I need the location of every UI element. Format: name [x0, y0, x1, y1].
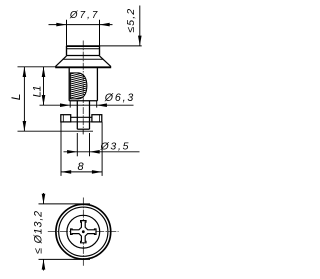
bottom view horizontal centerline	[48, 231, 119, 233]
L/L1 top reference line	[18, 66, 56, 68]
L arrow up	[23, 67, 27, 77]
bottom view outer circle	[56, 204, 111, 259]
extension line right (head right edge extended)	[99, 20, 101, 46]
L1 arrow down	[42, 95, 46, 105]
head top reference line extension (for 5,2 dim)	[100, 45, 142, 47]
arrow right-pointing at stem left	[67, 150, 77, 154]
pin left cap chamfer line	[62, 115, 64, 122]
dimension L vertical line	[23, 67, 25, 131]
body right edge	[96, 68, 98, 101]
flange collar line	[63, 58, 104, 60]
L arrow down	[23, 121, 27, 131]
svg-text:L: L	[9, 94, 23, 101]
centerline of side view	[82, 41, 84, 135]
extension of body left edge below	[69, 101, 71, 108]
Ø13,2 bottom tangent reference line	[39, 258, 91, 260]
Ø13,2 dimension line top segment with down arrow	[43, 193, 45, 204]
arrow down ≤5,2	[138, 36, 142, 46]
stem right edge	[89, 101, 91, 129]
svg-text:8: 8	[77, 161, 84, 173]
8-dim extension line right (pin right end extended)	[101, 122, 103, 176]
stem left edge	[76, 101, 78, 129]
8 arrow right	[92, 170, 102, 174]
bottom view vertical centerline	[82, 198, 84, 266]
Ø13,2 dimension line bottom segment with up arrow	[43, 259, 45, 270]
arrow left-pointing at body right edge	[97, 103, 107, 107]
flange bottom edge (thick)	[55, 66, 111, 68]
pin middle top line	[71, 116, 92, 118]
dimension line 8	[61, 171, 102, 173]
dimension line Ø3,5	[64, 151, 140, 153]
L bottom reference line	[18, 130, 94, 132]
L1 arrow up	[42, 67, 46, 77]
cross pin right cap	[92, 115, 102, 122]
extension of body right edge below	[96, 101, 98, 108]
head groove line	[67, 48, 100, 50]
Ø3,5 extension line right (stem right extended)	[89, 133, 91, 156]
flange right slant	[100, 56, 111, 67]
phillips center dot	[82, 230, 85, 233]
svg-text:Ø7,7: Ø7,7	[69, 10, 98, 21]
dimension L1 vertical line	[43, 67, 45, 105]
arrow right of Ø7,7	[100, 23, 110, 27]
head top face line (also ≤5,2 reference, extends right)	[67, 45, 100, 47]
dimension line ≤5,2 vertical with down arrow	[139, 6, 141, 46]
pin middle bottom line	[71, 121, 92, 123]
body bottom line	[69, 100, 97, 102]
head bottom line	[67, 55, 100, 57]
8 arrow left	[61, 170, 71, 174]
body left edge	[68, 68, 70, 101]
cross pin left cap	[61, 115, 71, 122]
stem bottom line	[77, 128, 89, 130]
head right side	[99, 46, 101, 56]
Ø13,2 top tangent reference line	[39, 203, 91, 205]
svg-text:Ø3,5: Ø3,5	[100, 140, 129, 152]
extension line left (head left edge extended)	[66, 20, 68, 46]
centerline tick below stem	[82, 129, 84, 134]
dimension line Ø6,3 (also L1 reference line)	[40, 104, 134, 106]
bottom view recess circle	[67, 215, 100, 248]
head left side	[66, 46, 68, 56]
flange left slant	[55, 56, 66, 67]
8-dim extension line left (pin left end extended)	[60, 122, 62, 176]
bottom view inner ring circle	[59, 207, 108, 256]
pin right cap chamfer line	[98, 115, 100, 122]
dimension line Ø7,7	[49, 24, 113, 26]
Ø3,5 extension line left (stem left extended)	[76, 133, 78, 156]
phillips cross recess	[71, 221, 96, 243]
arrow left of Ø7,7	[56, 23, 66, 27]
arrow left-pointing at stem right	[90, 150, 100, 154]
svg-text:≤5,2: ≤5,2	[126, 9, 137, 33]
svg-text:≤ Ø13,2: ≤ Ø13,2	[33, 211, 45, 254]
svg-text:Ø6,3: Ø6,3	[104, 92, 134, 104]
svg-text:L1: L1	[32, 86, 44, 98]
arrow right-pointing at body left edge	[60, 103, 70, 107]
